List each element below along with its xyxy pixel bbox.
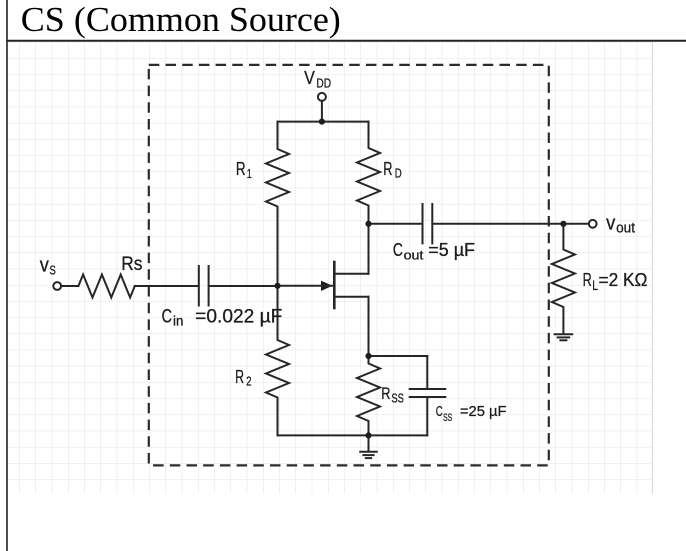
ground GND1 [360, 435, 377, 458]
power terminal VDD [318, 93, 326, 101]
wire VDD stem [321, 101, 323, 122]
terminal vout [589, 220, 597, 228]
terminal vs [53, 282, 61, 290]
node gate junction [274, 283, 280, 289]
capacitor Cout [423, 204, 433, 243]
svg-text:CS (Common Source): CS (Common Source) [21, 0, 341, 39]
ground GND2 [555, 334, 573, 340]
node source junction [365, 353, 371, 359]
wire CSS bottom stem [426, 398, 428, 435]
resistor Rs [78, 275, 134, 298]
node output junction [560, 221, 566, 227]
node drain junction [365, 221, 371, 227]
resistor R1 [266, 122, 289, 286]
wire Cin to gate junction [210, 285, 278, 287]
wire bottom rail [278, 434, 428, 436]
resistor RL [552, 224, 575, 334]
svg-text:Rs: Rs [121, 254, 142, 275]
wire drain vertical [368, 224, 370, 274]
resistor R2 [266, 286, 289, 436]
enclosure dashed box [149, 65, 549, 466]
resistor RSS [357, 356, 380, 435]
capacitor CSS [410, 389, 446, 397]
transistor Q1 [321, 262, 369, 308]
wire vs to Rs [61, 285, 78, 287]
capacitor Cin [199, 266, 209, 306]
resistor RD [357, 122, 380, 224]
wire top supply rail [278, 121, 369, 123]
wire Rs to Cin [135, 285, 198, 287]
node bottom junction [365, 432, 371, 438]
wire output to terminal [563, 223, 588, 225]
wire source vertical [368, 297, 370, 356]
node VDD junction [319, 119, 325, 125]
wire CSS top stem [426, 356, 428, 388]
wire drain to Cout [369, 223, 422, 225]
wire source rail [369, 355, 428, 357]
wire Cout to output [432, 223, 563, 225]
wire gate [278, 285, 335, 287]
